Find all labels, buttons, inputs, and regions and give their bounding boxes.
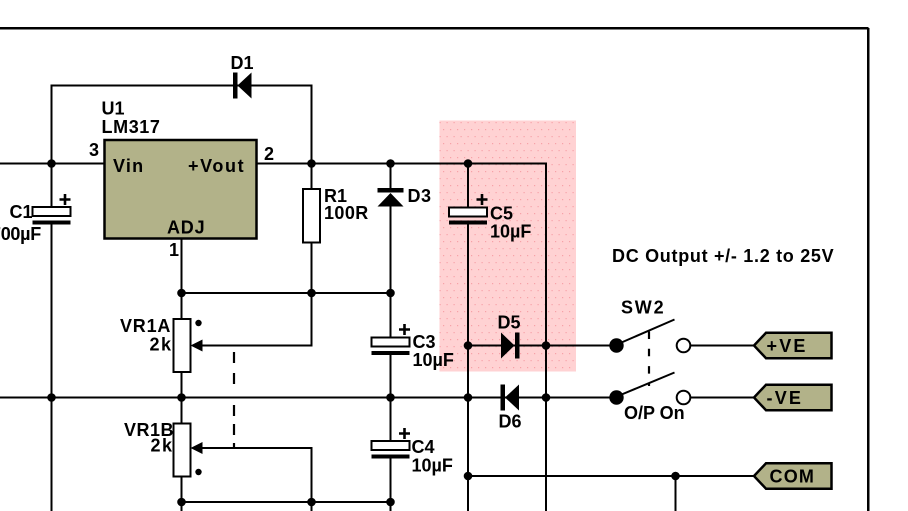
wire mid rail: [0, 397, 617, 399]
svg-text:10µF: 10µF: [490, 222, 531, 242]
diode D5: [501, 333, 520, 359]
junction D5 cathode / right vertical: [542, 341, 551, 350]
junction D3 / output rail: [386, 159, 395, 168]
wire R1 bottom: [311, 243, 313, 294]
wire C5 chain down: [467, 225, 469, 511]
junction C1 / input rail: [47, 159, 56, 168]
svg-text:3: 3: [89, 140, 99, 160]
wire D3 top: [390, 164, 392, 189]
wire output rail: [257, 164, 546, 346]
diode D3: [378, 188, 404, 207]
wire COM stub down: [675, 476, 677, 511]
svg-text:C3: C3: [413, 332, 436, 352]
svg-text:U1: U1: [102, 99, 125, 119]
svg-text:D5: D5: [498, 313, 521, 333]
svg-text:SW2: SW2: [621, 298, 665, 318]
resistor R1: [303, 189, 320, 243]
svg-text:VR1A: VR1A: [120, 316, 171, 336]
svg-text:Vin: Vin: [113, 156, 144, 176]
svg-text:10µF: 10µF: [412, 456, 453, 476]
diode D6: [501, 385, 520, 411]
diode D1: [233, 73, 252, 99]
wire COM rail: [468, 475, 754, 477]
potentiometer VR1B: [174, 424, 203, 477]
svg-text:2k: 2k: [151, 436, 174, 456]
capacitor C1: [33, 194, 71, 225]
wire VR1A wiper link: [196, 293, 312, 346]
wire VR1B wiper link: [196, 448, 312, 502]
wire VR1B bottom: [181, 477, 183, 511]
tag +VE: [754, 333, 832, 358]
junction wiper link / bottom rail: [307, 498, 316, 507]
svg-text:+Vout: +Vout: [188, 156, 245, 176]
wire C4 bottom: [390, 459, 392, 511]
svg-text:LM317: LM317: [102, 117, 161, 137]
wire ADJ pin: [181, 239, 183, 319]
junction C3 / ADJ rail: [386, 289, 395, 298]
wire C5 top: [467, 164, 469, 208]
wire bottom rail: [182, 501, 391, 503]
ganged dashed link VR1 lower: [233, 405, 235, 448]
junction C5 chain / COM rail: [464, 472, 473, 481]
svg-text:DC Output +/- 1.2 to 25V: DC Output +/- 1.2 to 25V: [612, 246, 834, 266]
wire input rail: [0, 163, 104, 165]
highlight region: [440, 121, 577, 372]
svg-text:100R: 100R: [324, 203, 369, 223]
potentiometer VR1A: [174, 319, 203, 372]
wire D1 top link: [52, 86, 312, 164]
junction C4 / bottom rail: [386, 498, 395, 507]
svg-text:O/P On: O/P On: [624, 403, 685, 423]
wire D3 to ADJ rail: [390, 207, 392, 294]
junction VR1B / bottom rail: [177, 498, 186, 507]
svg-text:700µF: 700µF: [0, 224, 41, 244]
wire SW2 upper throw: [691, 345, 755, 347]
svg-text:-VE: -VE: [767, 388, 804, 408]
svg-text:10µF: 10µF: [413, 350, 454, 370]
svg-text:COM: COM: [770, 467, 816, 487]
wire VR1A bottom: [181, 372, 183, 424]
wire D5 row: [468, 345, 617, 347]
wire SW2 lower throw: [691, 397, 755, 399]
wire R1 top: [311, 164, 313, 190]
wire ADJ rail: [182, 292, 391, 294]
switch SW2 upper pole: [609, 320, 690, 353]
svg-text:C4: C4: [412, 437, 435, 457]
capacitor C5: [449, 194, 488, 225]
svg-text:C5: C5: [490, 204, 513, 224]
wire right vertical: [545, 346, 547, 511]
wire C1 to mid rail: [51, 225, 53, 398]
junction R1 / ADJ rail: [307, 289, 316, 298]
switch SW2 lower pole: [609, 373, 690, 405]
junction D6 cathode / mid rail: [464, 393, 473, 402]
svg-text:2k: 2k: [150, 335, 173, 355]
wire C3 bottom: [390, 355, 392, 398]
wire R1 branch bottom: [311, 502, 313, 511]
wire C4 top: [390, 398, 392, 442]
capacitor C4: [372, 428, 411, 459]
wire C1 branch: [51, 164, 53, 208]
dashed link SW2: [648, 332, 650, 387]
wire C3 top: [390, 293, 392, 338]
capacitor C3: [372, 324, 411, 355]
junction D6 anode / right vertical: [542, 393, 551, 402]
junction C3 C4 / mid rail: [386, 393, 395, 402]
ganged dashed link VR1 upper: [233, 352, 235, 385]
svg-text:D1: D1: [231, 53, 254, 73]
tag -VE: [754, 385, 832, 410]
tag COM: [754, 463, 832, 488]
svg-text:+VE: +VE: [767, 336, 808, 356]
junction C5 / D5 anode: [464, 341, 473, 350]
junction ADJ / rail: [177, 289, 186, 298]
svg-text:2: 2: [264, 144, 274, 164]
svg-text:D6: D6: [499, 412, 522, 432]
junction D1 / R1 / output rail: [307, 159, 316, 168]
junction VR1 / mid rail: [177, 393, 186, 402]
junction C1 branch / mid rail: [47, 393, 56, 402]
junction COM stub: [671, 472, 680, 481]
svg-text:ADJ: ADJ: [167, 218, 205, 238]
op-amp U1 body: [105, 140, 257, 239]
wire left vertical bottom: [51, 398, 53, 511]
svg-text:D3: D3: [408, 186, 432, 206]
junction C5 / output rail: [464, 159, 473, 168]
svg-text:1: 1: [169, 240, 179, 260]
svg-text:C1: C1: [10, 202, 33, 222]
